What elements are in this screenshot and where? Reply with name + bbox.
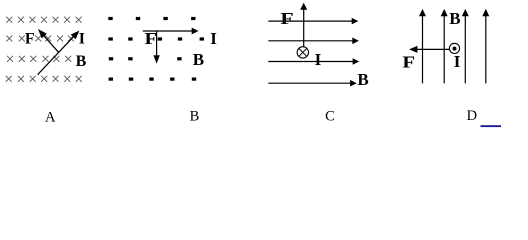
svg-text:F: F <box>25 31 35 48</box>
svg-text:B: B <box>76 53 87 70</box>
svg-text:I: I <box>210 29 217 48</box>
svg-text:B: B <box>190 109 200 125</box>
svg-text:I: I <box>315 50 322 69</box>
svg-text:I: I <box>454 52 461 71</box>
svg-text:F: F <box>280 10 293 28</box>
svg-text:F: F <box>402 53 415 72</box>
svg-text:B: B <box>449 9 460 28</box>
svg-text:C: C <box>325 109 335 125</box>
svg-text:I: I <box>79 31 85 48</box>
svg-text:D: D <box>467 108 477 124</box>
svg-text:F: F <box>145 30 158 49</box>
svg-text:A: A <box>45 110 56 126</box>
svg-text:B: B <box>357 70 368 89</box>
svg-text:B: B <box>193 50 204 69</box>
